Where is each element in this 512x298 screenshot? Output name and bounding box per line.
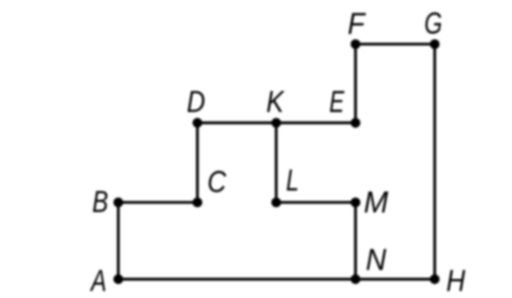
svg-text:G: G [424, 5, 442, 40]
node G [430, 39, 440, 49]
node F [351, 39, 361, 49]
node M [351, 198, 361, 208]
node C [193, 198, 203, 208]
wire F-G [356, 43, 435, 46]
svg-text:K: K [266, 84, 285, 119]
svg-text:L: L [286, 163, 299, 198]
node K [271, 118, 281, 128]
wire M-N [354, 202, 357, 279]
node E [351, 118, 361, 128]
wire C-D [196, 123, 199, 203]
svg-text:E: E [329, 84, 344, 119]
svg-text:M: M [364, 185, 389, 220]
wire B-C [118, 201, 197, 204]
node A [113, 274, 123, 284]
wire G-H [433, 44, 436, 279]
wire K-L [275, 123, 278, 203]
svg-text:N: N [366, 242, 387, 277]
node H [430, 274, 440, 284]
wire D-E [197, 121, 355, 124]
wire E-F [354, 44, 357, 123]
node L [271, 198, 281, 208]
wire L-M [276, 201, 355, 204]
wire H-A [118, 278, 434, 281]
wire A-B [117, 202, 120, 279]
svg-text:D: D [187, 84, 206, 119]
svg-text:B: B [92, 184, 108, 219]
svg-text:H: H [446, 263, 466, 298]
svg-text:C: C [207, 164, 227, 199]
node B [113, 198, 123, 208]
svg-text:A: A [90, 263, 107, 298]
svg-text:F: F [348, 6, 367, 41]
node D [193, 118, 203, 128]
node N [351, 274, 361, 284]
